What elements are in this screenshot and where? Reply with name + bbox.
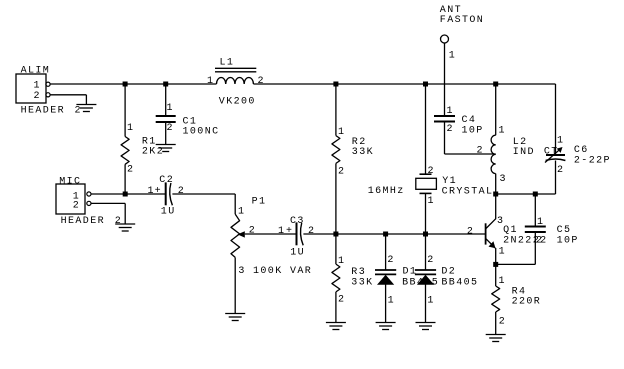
- svg-text:1U: 1U: [290, 248, 305, 259]
- svg-text:33K: 33K: [352, 147, 374, 158]
- svg-text:2: 2: [308, 226, 315, 237]
- svg-text:HEADER: HEADER: [21, 106, 65, 117]
- svg-text:1: 1: [278, 226, 285, 237]
- svg-text:2K2: 2K2: [142, 147, 164, 158]
- svg-text:1: 1: [427, 296, 434, 307]
- svg-text:P1: P1: [252, 197, 267, 208]
- svg-text:2: 2: [499, 317, 506, 328]
- svg-text:2: 2: [467, 226, 474, 237]
- svg-text:BB405: BB405: [441, 277, 478, 288]
- svg-text:33K: 33K: [351, 277, 373, 288]
- svg-text:2: 2: [427, 255, 434, 266]
- svg-text:1: 1: [338, 127, 345, 138]
- svg-text:2: 2: [249, 225, 256, 236]
- svg-text:2: 2: [387, 255, 394, 266]
- svg-text:2: 2: [557, 165, 564, 176]
- svg-text:FASTON: FASTON: [440, 15, 484, 26]
- svg-text:CRYSTAL: CRYSTAL: [442, 186, 494, 197]
- svg-text:HEADER: HEADER: [61, 216, 105, 227]
- svg-text:1: 1: [447, 106, 454, 117]
- svg-text:2: 2: [178, 186, 185, 197]
- svg-text:2: 2: [428, 166, 435, 177]
- svg-text:3: 3: [238, 266, 245, 277]
- svg-text:2: 2: [167, 123, 174, 134]
- svg-text:2: 2: [127, 165, 134, 176]
- svg-text:16MHz: 16MHz: [368, 186, 405, 197]
- svg-text:2: 2: [477, 146, 484, 157]
- svg-text:1: 1: [127, 123, 134, 134]
- svg-text:1U: 1U: [161, 206, 176, 217]
- svg-text:100K VAR: 100K VAR: [253, 266, 312, 277]
- svg-text:1: 1: [499, 247, 506, 258]
- svg-text:1: 1: [167, 103, 174, 114]
- svg-text:2: 2: [73, 201, 80, 212]
- svg-text:1: 1: [557, 136, 564, 147]
- svg-text:1: 1: [34, 81, 41, 92]
- svg-text:D2: D2: [441, 267, 456, 278]
- svg-text:BB405: BB405: [402, 277, 439, 288]
- svg-text:1: 1: [428, 196, 435, 207]
- svg-text:MIC: MIC: [59, 177, 81, 188]
- svg-text:1: 1: [499, 276, 506, 287]
- svg-text:+: +: [155, 186, 162, 197]
- svg-text:CT: CT: [544, 146, 559, 157]
- svg-text:1: 1: [537, 217, 544, 228]
- svg-text:2: 2: [447, 124, 454, 135]
- svg-text:10P: 10P: [557, 235, 579, 246]
- svg-text:2: 2: [338, 167, 345, 178]
- svg-text:IND: IND: [513, 147, 535, 158]
- svg-text:ALIM: ALIM: [21, 66, 51, 77]
- svg-text:C6: C6: [574, 145, 589, 156]
- svg-text:2-22P: 2-22P: [574, 156, 611, 167]
- svg-text:C2: C2: [159, 175, 174, 186]
- svg-text:2: 2: [338, 295, 345, 306]
- svg-text:2: 2: [258, 76, 265, 87]
- svg-text:2: 2: [536, 235, 543, 246]
- svg-text:1: 1: [388, 296, 395, 307]
- svg-text:+: +: [286, 226, 293, 237]
- svg-text:1: 1: [338, 256, 345, 267]
- svg-text:VK200: VK200: [219, 97, 256, 108]
- svg-text:1: 1: [449, 51, 456, 62]
- svg-text:2: 2: [75, 106, 82, 117]
- svg-text:220R: 220R: [512, 297, 542, 308]
- svg-text:D1: D1: [403, 267, 418, 278]
- svg-text:1: 1: [238, 207, 245, 218]
- svg-text:3: 3: [500, 174, 507, 185]
- svg-text:1: 1: [499, 126, 506, 137]
- svg-text:2: 2: [34, 91, 41, 102]
- svg-text:2: 2: [115, 216, 122, 227]
- svg-text:100NC: 100NC: [183, 127, 220, 138]
- svg-text:1: 1: [207, 76, 214, 87]
- svg-text:10P: 10P: [462, 125, 484, 136]
- svg-text:L1: L1: [220, 58, 235, 69]
